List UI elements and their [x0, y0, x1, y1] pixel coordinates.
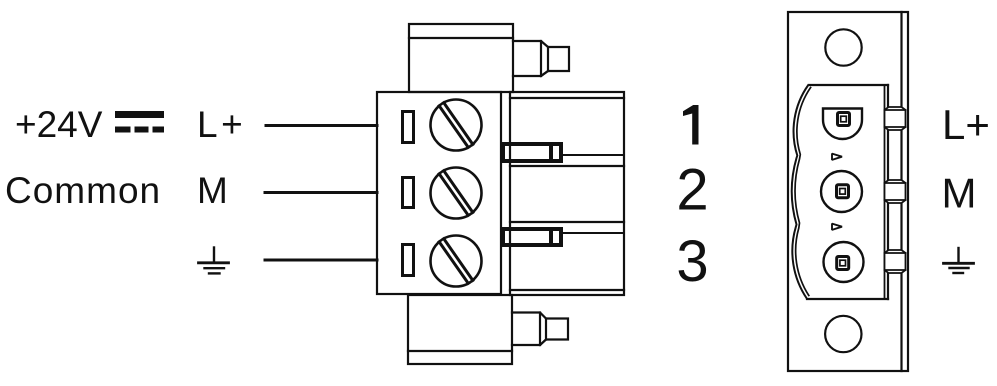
- rail bump 3: [885, 250, 906, 273]
- wire L+ to terminal 1: [266, 124, 377, 127]
- contact pin 1: [503, 144, 561, 161]
- front view frame: [788, 12, 908, 371]
- svg-text:M: M: [942, 170, 977, 217]
- pin contact 1: [838, 113, 850, 126]
- screw 3: [431, 236, 482, 287]
- screw 2: [431, 168, 482, 219]
- svg-text:M: M: [197, 170, 228, 211]
- DC supply symbol: [115, 111, 164, 133]
- coding triangle 2: [832, 224, 842, 230]
- terminal number 1: [683, 105, 699, 145]
- rail bump 2: [885, 180, 906, 203]
- svg-text:Common: Common: [5, 170, 161, 211]
- bottom flange: [408, 295, 512, 364]
- svg-text:+24V: +24V: [15, 104, 103, 145]
- pin boss 2: [821, 171, 862, 212]
- ground symbol right: [944, 248, 974, 273]
- screw 1: [431, 100, 482, 151]
- pin contact 3: [837, 257, 849, 270]
- wire entry slot 2: [403, 178, 414, 208]
- screw housing body: [377, 92, 501, 294]
- pin boss 1: [823, 109, 862, 140]
- mounting hole bottom: [825, 316, 861, 352]
- shell side rail: [884, 86, 886, 298]
- svg-text:L+: L+: [942, 101, 990, 148]
- svg-text:2: 2: [676, 158, 708, 223]
- svg-text:L+: L+: [197, 104, 246, 145]
- top flange pin: [513, 41, 569, 76]
- mounting hole top: [825, 29, 861, 65]
- wire entry slot 1: [403, 112, 414, 143]
- bottom flange pin: [512, 313, 568, 346]
- svg-text:3: 3: [676, 229, 708, 294]
- ground symbol left: [199, 248, 229, 274]
- contact pin 2: [503, 229, 561, 245]
- rail bump 1: [885, 107, 906, 130]
- plug body right section: [510, 92, 624, 295]
- pin boss 3: [824, 242, 864, 282]
- wire ground to terminal 3: [265, 259, 377, 262]
- wire entry slot 3: [403, 245, 414, 276]
- socket shell: [792, 85, 888, 299]
- coding triangle 1: [832, 154, 842, 160]
- wire M to terminal 2: [265, 191, 377, 194]
- terminal block side view: top flange: [409, 24, 513, 92]
- pin contact 2: [837, 185, 849, 198]
